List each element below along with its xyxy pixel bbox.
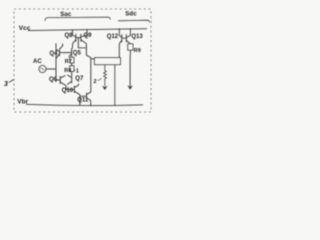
svg-text:R7: R7 — [65, 59, 72, 65]
svg-text:R9: R9 — [134, 48, 141, 54]
svg-text:Q7: Q7 — [75, 76, 84, 82]
svg-text:Sdc: Sdc — [125, 11, 137, 18]
svg-text:Q4: Q4 — [50, 51, 59, 57]
svg-text:AC: AC — [33, 59, 42, 65]
svg-text:Q10: Q10 — [62, 88, 74, 94]
svg-text:Q8: Q8 — [65, 33, 74, 39]
svg-text:Q5: Q5 — [73, 50, 82, 56]
svg-text:Q13: Q13 — [131, 34, 143, 40]
svg-text:R8: R8 — [64, 68, 71, 74]
svg-text:3: 3 — [4, 81, 8, 88]
svg-text:1: 1 — [76, 69, 79, 75]
svg-text:2: 2 — [94, 79, 97, 85]
svg-text:Q12: Q12 — [107, 34, 119, 40]
